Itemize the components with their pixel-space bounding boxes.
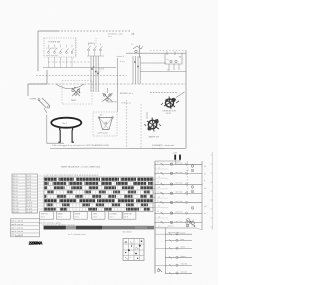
chart-to-ladder connector stubs — [153, 180, 155, 208]
svg-text:tmr c1: tmr c1 — [13, 175, 18, 178]
ladder tie right extension — [197, 228, 203, 230]
svg-text:m-8 b: m-8 b — [27, 197, 32, 199]
svg-text:m-4 b: m-4 b — [27, 185, 32, 187]
svg-text:WATER VLV: WATER VLV — [149, 136, 160, 139]
pressure switch S4 — [103, 88, 117, 103]
junction labels near bundle A — [97, 68, 104, 73]
wire vertical x=141 mid — [140, 104, 142, 148]
svg-text:m-12 b: m-12 b — [27, 209, 32, 211]
svg-text:m-3 b: m-3 b — [27, 182, 32, 184]
svg-text:tmr c5: tmr c5 — [13, 187, 18, 190]
svg-text:m-1 b: m-1 b — [27, 176, 32, 178]
svg-text:w-2 r: w-2 r — [97, 71, 101, 73]
ladder rung 2 (lid sw) — [154, 171, 202, 178]
text row of terminal labels under schematic — [52, 144, 109, 147]
svg-text:min 7: min 7 — [110, 217, 114, 219]
svg-text:c6: c6 — [157, 211, 159, 213]
svg-text:tmr c13: tmr c13 — [13, 211, 19, 214]
ladder lower left stubs — [155, 234, 166, 272]
svg-text:timer in off pos.: timer in off pos. — [152, 147, 165, 150]
svg-text:OFF FILL: OFF FILL — [41, 213, 49, 215]
svg-text:rev 2 - schematic sheet: rev 2 - schematic sheet — [68, 233, 86, 236]
ladder mid horizontal tie — [155, 227, 197, 229]
svg-text:wash rinse spin: wash rinse spin — [46, 54, 58, 57]
svg-text:m-7 b: m-7 b — [27, 194, 32, 196]
svg-text:c7: c7 — [157, 220, 159, 222]
ladder rung 3 (wash sol) — [154, 182, 202, 189]
svg-text:min 4: min 4 — [58, 217, 62, 219]
long gray bar (fold mark) — [44, 226, 155, 230]
svg-text:220964A: 220964A — [29, 240, 43, 245]
wire: bottom boundary of schematic — [50, 147, 186, 149]
svg-text:aux cct: aux cct — [168, 225, 174, 228]
svg-text:cam 5 a-b: cam 5 a-b — [175, 201, 182, 203]
wire: top boundary of schematic — [38, 30, 131, 32]
ladder rung 7 (drain) — [154, 220, 202, 227]
svg-text:note b - cam sw: note b - cam sw — [11, 223, 24, 226]
svg-text:m2: m2 — [204, 188, 206, 190]
svg-text:min 5: min 5 — [75, 217, 79, 219]
svg-text:1/3 HP: 1/3 HP — [166, 113, 172, 115]
svg-text:SPIN DRY: SPIN DRY — [124, 213, 133, 215]
ladder bottom-right component cluster — [186, 219, 195, 227]
wire: right boundary vertical — [185, 51, 187, 149]
baseline under goblet — [47, 142, 65, 144]
scattered labels in ladder area — [157, 161, 189, 234]
cam chart dark segments row1 — [44, 178, 152, 181]
timer assembly T1 dashed enclosure — [44, 38, 76, 57]
svg-text:c3: c3 — [157, 182, 159, 184]
water temperature switch S3 — [71, 87, 81, 102]
ladder rung 10 (heater) — [165, 246, 192, 250]
svg-text:1 2 3 4 5 6 7 8: 1 2 3 4 5 6 7 8 — [47, 48, 58, 50]
detail box junction dots — [124, 240, 142, 259]
ladder rung 12 (motor fld) — [165, 263, 192, 267]
cam chart grid — [44, 177, 153, 212]
cam chart dark segments row2 — [44, 182, 152, 185]
wire dashed to drive motor — [150, 91, 177, 93]
svg-text:note d - cam sw: note d - cam sw — [11, 230, 24, 233]
cam chart vertical gridline texture — [47, 177, 150, 212]
svg-text:SCHEMATIC - shown with: SCHEMATIC - shown with — [152, 144, 174, 147]
svg-text:tmr c4: tmr c4 — [13, 184, 18, 187]
svg-text:min 6: min 6 — [93, 217, 97, 219]
ladder far right dashed rail — [187, 161, 189, 196]
svg-text:tmr c10: tmr c10 — [13, 202, 19, 205]
start switch S1 contacts — [87, 43, 104, 56]
cam chart dark segments row3 — [44, 186, 152, 189]
svg-text:rly: rly — [186, 191, 188, 193]
cam chart dark segments row6 — [44, 199, 152, 202]
agitator funnel symbol — [98, 117, 113, 130]
svg-text:cam 1 a-b: cam 1 a-b — [175, 163, 182, 165]
svg-text:bk: bk — [204, 174, 206, 176]
svg-text:s.c: s.c — [131, 44, 134, 46]
cam chart dark segments row8 — [44, 208, 150, 211]
svg-text:tmr c11: tmr c11 — [13, 205, 19, 208]
svg-text:tmr c7: tmr c7 — [13, 193, 18, 196]
svg-text:WASH: WASH — [58, 212, 64, 215]
svg-text:a b c: a b c — [108, 36, 112, 38]
ladder lower inner rail — [165, 228, 167, 274]
wire dashed horizontal y=75.5 — [36, 75, 127, 77]
svg-text:m-11 b: m-11 b — [27, 206, 32, 208]
svg-text:m-2 b: m-2 b — [27, 179, 32, 181]
svg-text:T I M E R SW: T I M E R SW — [48, 42, 61, 44]
svg-text:m1: m1 — [204, 166, 206, 168]
svg-text:note a - cam sw: note a - cam sw — [11, 220, 24, 223]
labels upper right of center — [117, 55, 125, 63]
detail box internal lines — [123, 239, 144, 261]
svg-text:2nd RNS: 2nd RNS — [110, 213, 118, 215]
svg-text:cam 4 a-b: cam 4 a-b — [175, 192, 182, 194]
terminal N bold stub — [179, 155, 181, 160]
svg-text:TEMP: TEMP — [71, 100, 77, 102]
cycle label boxes under chart — [40, 211, 136, 219]
goblet neck right curl — [71, 127, 74, 142]
wire vertical x=117.5 mid — [117, 58, 119, 112]
svg-text:tmr c8: tmr c8 — [13, 196, 18, 199]
svg-text:drn: drn — [100, 114, 103, 117]
ladder rung 13 (start cap) — [165, 271, 192, 275]
wire vertical x=126.5 mid — [126, 100, 128, 148]
terminal board cluster top right — [165, 53, 182, 70]
svg-text:br or y: br or y — [120, 61, 125, 63]
ladder rung 1 (timer 1) — [154, 162, 202, 169]
svg-text:cam 2 a-b: cam 2 a-b — [175, 172, 182, 174]
svg-text:j4 j5 bk: j4 j5 bk — [98, 68, 104, 70]
wire vertical above water valve — [146, 112, 148, 119]
wire horizontal y=67.5 left — [43, 67, 116, 69]
ladder right rail upper — [201, 161, 203, 230]
ladder rung 5 (spin sol) — [154, 201, 202, 208]
ladder rung 8 (buzzer) — [165, 232, 192, 235]
drive motor M1 (dark symbol) — [161, 97, 179, 110]
svg-text:tmr c3: tmr c3 — [13, 181, 18, 184]
svg-text:tmr c6: tmr c6 — [13, 190, 18, 193]
ladder rung 4 (agit) — [154, 191, 202, 198]
svg-text:min 3: min 3 — [41, 217, 45, 219]
svg-text:BUZZER - b2 n: BUZZER - b2 n — [120, 93, 133, 95]
strip circuit title text — [152, 144, 174, 150]
notes table lower left — [11, 219, 40, 237]
cam chart dark segments row5 — [44, 195, 152, 198]
wire horizontal y=71.5 right — [140, 71, 186, 73]
label drive motor — [163, 111, 177, 116]
svg-text:cam 7 a-b: cam 7 a-b — [175, 221, 182, 223]
svg-text:4 RPM: 4 RPM — [30, 99, 37, 101]
legend table to grid connector stubs — [38, 176, 45, 209]
svg-text:PRESS SW: PRESS SW — [107, 101, 117, 103]
svg-text:bu: bu — [204, 213, 206, 215]
svg-text:START: START — [88, 42, 95, 45]
goblet neck left curl — [58, 127, 61, 142]
svg-text:timer detail: timer detail — [123, 231, 132, 234]
svg-text:TIMER SEQUENCE - CYCLE CHA: TIMER SEQUENCE - CYCLE CHART (60) — [61, 166, 101, 169]
ladder rung 6 (pump) — [154, 211, 202, 218]
wire: long feed at y=53 to right edge — [126, 51, 186, 56]
svg-text:min 8: min 8 — [124, 217, 128, 219]
lid switch S2 — [30, 98, 51, 113]
water temperature switch S3 dashed enclosure — [62, 81, 92, 105]
svg-text:l-n: l-n — [167, 59, 169, 61]
wire dashed horizontal y=84 — [30, 83, 186, 85]
wire dashed vertical from start switch — [95, 38, 97, 44]
timer box output stems — [49, 57, 73, 68]
wire horizontal y=63 right — [140, 62, 166, 64]
wire: left boundary jog to lid switch — [28, 70, 47, 96]
basket/solenoid bold ellipse — [51, 118, 81, 128]
svg-text:t1 bk w or bu gy pk br r y v w: t1 bk w or bu gy pk br r y v w2 g bk2 or… — [52, 144, 109, 147]
svg-text:lamp: lamp — [181, 239, 185, 241]
right column branch components — [191, 165, 206, 215]
ladder rung 9 (lamp) — [165, 239, 192, 242]
svg-text:c4: c4 — [157, 191, 159, 193]
wire bundle A verticals with junctions — [91, 56, 99, 92]
wire diagonal motor to right rail — [176, 92, 185, 98]
buzzer BZ text row — [120, 93, 133, 104]
svg-text:mod 4567: mod 4567 — [15, 236, 23, 238]
wire vertical from lid switch to baseline — [46, 115, 48, 144]
wire from L1 stub down — [175, 160, 202, 165]
wire faint y=62 left — [48, 61, 90, 63]
svg-text:sub circuit - dry: sub circuit - dry — [168, 231, 180, 234]
svg-text:cam 3 a-b: cam 3 a-b — [175, 183, 182, 185]
svg-text:m-5 b: m-5 b — [27, 188, 32, 190]
svg-text:m3: m3 — [204, 206, 206, 208]
ladder rung 11 (thermo) — [165, 255, 192, 259]
svg-text:m-6 b: m-6 b — [27, 191, 32, 193]
wire bundle B verticals with junctions — [133, 56, 140, 84]
svg-text:note c - cam sw: note c - cam sw — [11, 227, 24, 230]
svg-text:n c: n c — [130, 257, 132, 259]
svg-text:term block - conn: term block - conn — [108, 33, 123, 36]
svg-text:neu: neu — [167, 70, 170, 72]
svg-text:buzzer: buzzer — [181, 232, 186, 234]
switch legend table left of chart — [12, 174, 38, 214]
cam chart dark segments row4 — [47, 191, 150, 194]
svg-text:c2: c2 — [157, 171, 159, 173]
svg-text:L1 N: L1 N — [173, 153, 178, 155]
svg-text:cam 6 a-b: cam 6 a-b — [175, 212, 182, 214]
svg-text:m-13 b: m-13 b — [27, 212, 32, 214]
ladder left rail — [154, 161, 156, 274]
agitator detail dashed box — [93, 112, 117, 136]
svg-text:c5: c5 — [157, 201, 159, 203]
svg-text:no.1: no.1 — [186, 170, 189, 172]
timer cam contacts inside T1 — [46, 45, 74, 58]
right margin tick column — [211, 152, 213, 230]
svg-text:m-10 b: m-10 b — [27, 203, 32, 205]
wire curved loop under y=84 — [56, 84, 84, 89]
wire from N stub down — [155, 160, 180, 161]
svg-text:tmr c9: tmr c9 — [13, 199, 18, 202]
svg-text:2-SPD pump: 2-SPD pump — [98, 133, 108, 135]
wire vertical dashed divider x=75 — [75, 38, 77, 57]
svg-text:m-9 b: m-9 b — [27, 200, 32, 202]
terminal L1 bold stub — [174, 155, 176, 160]
detail box outline — [123, 239, 144, 261]
water valve V1 (dark symbol) — [145, 118, 162, 132]
svg-text:RINSE: RINSE — [75, 213, 81, 215]
wire: left boundary vertical — [37, 31, 39, 71]
label terminal block under top line — [108, 33, 123, 39]
cam chart dark segments row7 — [47, 204, 148, 207]
svg-text:tmr c12: tmr c12 — [13, 208, 19, 211]
interlock switch top right of schematic — [131, 44, 143, 59]
svg-text:tmr c2: tmr c2 — [13, 178, 18, 181]
